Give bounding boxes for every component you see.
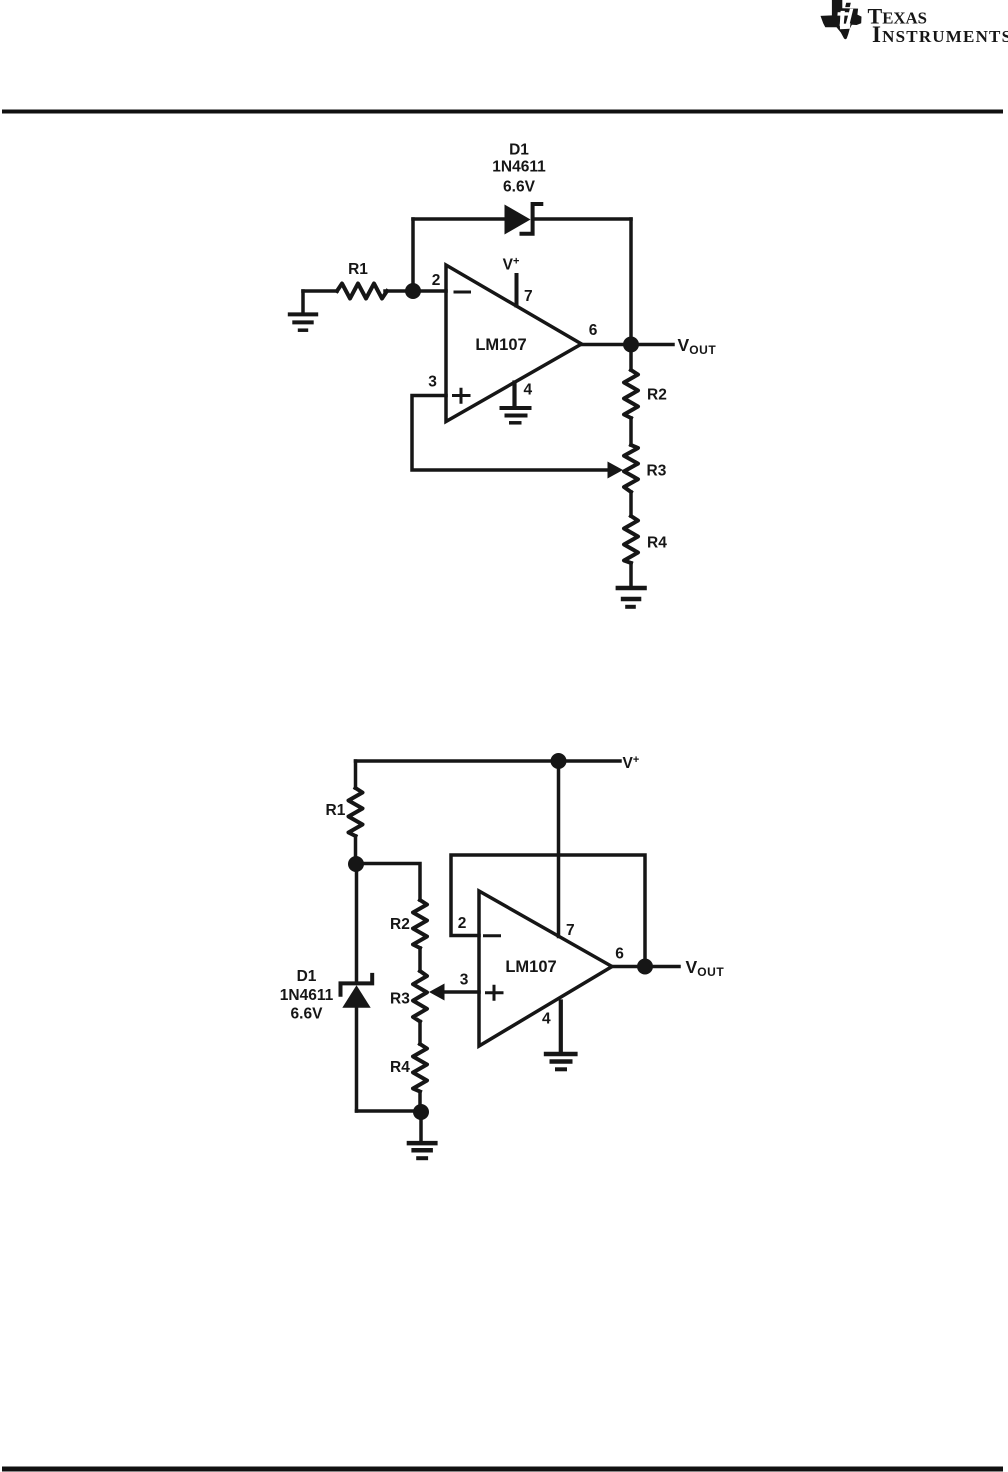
output wire <box>582 343 674 347</box>
svg-text:LM107: LM107 <box>505 958 556 976</box>
svg-text:R4: R4 <box>390 1059 410 1076</box>
svg-text:4: 4 <box>542 1011 551 1028</box>
resistor R2 <box>624 370 667 418</box>
wire top feedback left segment <box>413 217 506 221</box>
resistor R2 (circuit 2) <box>390 900 427 948</box>
ground G2 under pin 4 <box>500 408 532 423</box>
op-amp U1 LM107 <box>446 265 582 422</box>
wire zener to bottom rail <box>355 1008 359 1111</box>
svg-text:6: 6 <box>615 946 624 963</box>
output node dot <box>637 959 653 975</box>
ground G3 bottom of circuit 1 <box>616 588 647 607</box>
bottom rule <box>2 1467 1003 1472</box>
svg-text:R2: R2 <box>390 916 410 933</box>
svg-text:6.6V: 6.6V <box>503 179 536 196</box>
wire R3-R4 <box>629 492 633 516</box>
wire node down from D1 top <box>355 864 359 981</box>
svg-text:6.6V: 6.6V <box>291 1006 324 1023</box>
wiper arrowhead into R3 (pointing left) <box>429 984 445 1001</box>
wiper arrowhead into R3 <box>608 462 624 479</box>
resistor R1 <box>337 261 387 299</box>
wire R1 to node <box>385 289 413 293</box>
svg-text:VOUT: VOUT <box>686 957 725 979</box>
wire R3-R4 <box>418 1022 422 1045</box>
svg-text:R1: R1 <box>326 802 346 819</box>
resistor R4 (circuit 2) <box>390 1044 427 1092</box>
wire R2-R3 <box>418 948 422 971</box>
wire ground to R1 <box>303 289 337 293</box>
wire R1 to node <box>354 836 358 864</box>
wire feedback down to output node <box>629 219 633 370</box>
pin 2 feedback loop wire <box>451 855 645 967</box>
pin 3 wire to wiper <box>412 396 608 471</box>
V+ wire down to pin 7 <box>557 761 561 937</box>
svg-text:7: 7 <box>566 922 575 939</box>
pin 2 wire <box>420 289 446 293</box>
svg-text:R4: R4 <box>647 535 667 552</box>
svg-text:3: 3 <box>460 972 469 989</box>
TEXAS INSTRUMENTS wordmark <box>868 4 1008 48</box>
svg-text:LM107: LM107 <box>475 336 526 354</box>
wire node to R2 top <box>356 864 420 901</box>
wire node to ground G5 <box>419 1119 423 1141</box>
svg-text:1N4611: 1N4611 <box>492 159 546 176</box>
resistor R4 <box>624 516 667 563</box>
wire R4 to bottom node <box>418 1092 422 1112</box>
wire R2-R3 <box>629 418 633 445</box>
bottom node dot <box>413 1104 429 1120</box>
wire node up to feedback <box>411 219 415 291</box>
ground G1 left of R1 <box>288 291 318 330</box>
svg-text:2: 2 <box>458 915 467 932</box>
node dot below R1 <box>348 856 364 872</box>
svg-text:D1: D1 <box>509 142 529 159</box>
pin 7 stem <box>515 275 519 306</box>
svg-text:R3: R3 <box>390 991 410 1008</box>
svg-text:R3: R3 <box>647 463 667 480</box>
svg-text:R1: R1 <box>348 261 368 278</box>
zener diode D1 (circuit 2, pointing up) <box>280 968 372 1023</box>
ground G5 under bottom node <box>407 1143 438 1158</box>
top rule <box>2 110 1003 114</box>
pin 4 stem <box>559 1002 563 1053</box>
potentiometer R3 (circuit 2) <box>390 971 427 1022</box>
svg-text:3: 3 <box>428 374 437 391</box>
svg-text:1N4611: 1N4611 <box>280 987 334 1004</box>
svg-text:6: 6 <box>589 322 598 339</box>
ground G4 under pin 4 <box>544 1054 578 1069</box>
output wire <box>612 965 679 969</box>
output node dot <box>623 337 639 353</box>
svg-text:V+: V+ <box>623 754 640 772</box>
resistor R1 (circuit 2) <box>326 788 363 836</box>
zener diode D1 (triangle + bent bar) <box>492 142 546 235</box>
op-amp U2 LM107 <box>479 891 612 1046</box>
svg-text:7: 7 <box>524 288 533 305</box>
V+ supply rail wire <box>356 759 621 763</box>
svg-text:R2: R2 <box>647 387 667 404</box>
svg-text:VOUT: VOUT <box>678 335 717 357</box>
wire zener bottom to node <box>357 1109 422 1113</box>
TI logo Texas-state bug <box>821 0 862 39</box>
svg-text:D1: D1 <box>297 968 317 985</box>
node junction dot (inverting input) <box>405 283 421 299</box>
pin 4 stem <box>512 383 516 407</box>
potentiometer R3 <box>624 445 667 492</box>
wire R4 to ground <box>629 563 633 586</box>
svg-text:4: 4 <box>524 382 533 399</box>
wire rail down to R1 <box>354 761 358 788</box>
svg-text:V+: V+ <box>503 256 520 274</box>
V+ node dot <box>551 753 567 769</box>
wire top feedback right segment <box>535 217 631 221</box>
svg-text:2: 2 <box>432 272 441 289</box>
pin 3 wire from wiper <box>443 990 479 994</box>
